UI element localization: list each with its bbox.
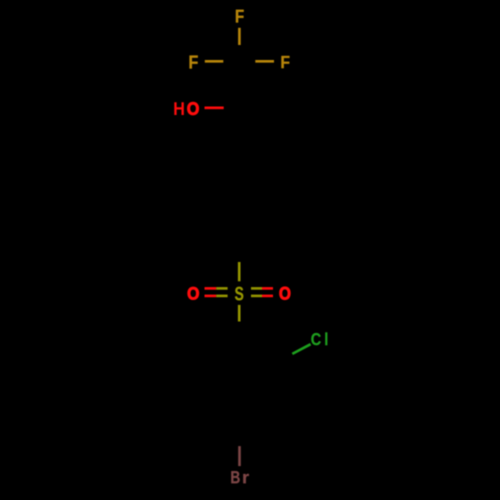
bond C-F left (F half) [205,60,224,63]
atom label r of Br [243,474,249,483]
atom label F (left) [190,56,198,69]
double bond S=O left, top line, S half [216,287,227,290]
double bond S=O right, top line, O half [262,287,273,290]
atom label S (sulfonyl) [235,287,243,301]
double bond S=O left, top line, O half [205,287,217,290]
atom label O of HO [187,102,198,115]
atom label F (top) [236,10,244,23]
bond ringC-Br (Br half) [238,446,241,466]
bond C-F top (F half) [238,28,241,45]
atom label B of Br [231,471,239,483]
double bond S=O left, bottom line, O half [205,295,217,298]
bond C-F right (F half) [255,60,274,63]
double bond S=O right, bottom line, O half [262,295,273,298]
atom label O (sulfonyl left) [188,287,199,299]
bond O-C hydroxyl (O half) [205,107,224,110]
bond S-ringC lower (S half) [238,305,241,322]
bond ringC-S upper (S half) [238,262,241,281]
atom label l of Cl [325,332,327,345]
atom label O (sulfonyl right) [280,287,291,300]
double bond S=O right, bottom line, S half [251,295,262,298]
atom label C of Cl [311,333,320,345]
atom label H of HO [174,102,183,115]
double bond S=O left, bottom line, S half [216,295,227,298]
double bond S=O right, top line, S half [251,287,262,290]
atom label F (right) [281,56,289,68]
bond ringC-Cl (Cl half) [292,344,310,354]
